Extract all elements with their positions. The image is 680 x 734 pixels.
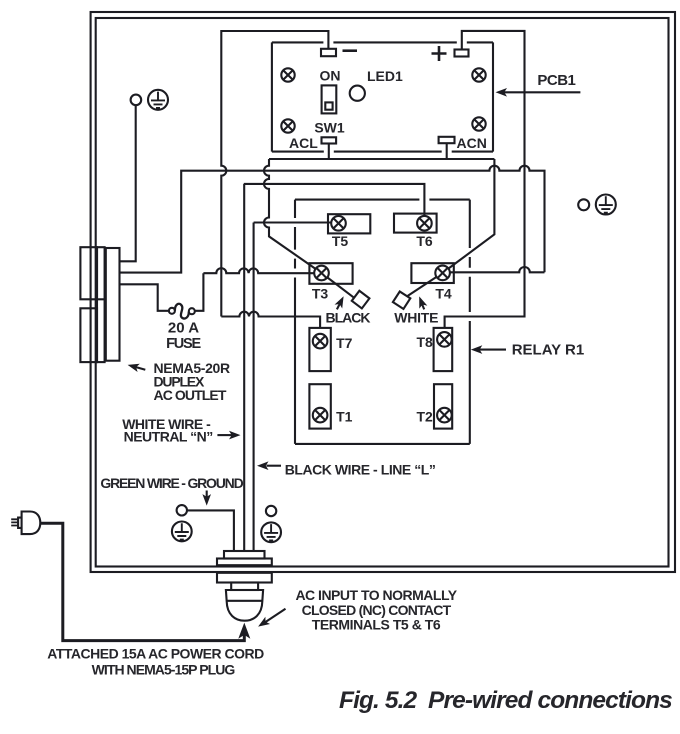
svg-text:AC OUTLET: AC OUTLET: [154, 387, 227, 403]
terminal T7: [309, 328, 330, 371]
svg-text:T6: T6: [416, 233, 433, 249]
svg-text:FUSE: FUSE: [166, 336, 201, 352]
ground stud circle right: [578, 199, 589, 210]
cable gland dome: [226, 590, 263, 621]
enclosure inner box: [96, 18, 669, 567]
svg-text:GREEN WIRE - GROUND: GREEN WIRE - GROUND: [100, 475, 243, 491]
wire: ACL tab drop: [328, 143, 330, 159]
svg-text:20 A: 20 A: [168, 320, 199, 337]
plug prongs: [11, 519, 18, 525]
svg-text:T7: T7: [336, 335, 353, 351]
arrow to relay R1: [479, 349, 506, 351]
screw T7: [313, 334, 328, 349]
svg-text:TERMINALS T5 & T6: TERMINALS T5 & T6: [312, 616, 441, 632]
wire: bus left branch to T3 screw: [264, 159, 322, 273]
svg-text:WITH NEMA5-15P PLUG: WITH NEMA5-15P PLUG: [92, 662, 236, 678]
svg-text:T2: T2: [416, 409, 433, 425]
arrow to black wire: [267, 465, 282, 467]
duplex outlet upper face: [80, 247, 97, 299]
ground symbol bottom-left: [172, 522, 192, 542]
svg-text:ACN: ACN: [457, 135, 487, 151]
arrow AC input to gland: [264, 609, 286, 623]
terminal tab ACN: [439, 137, 455, 143]
ground symbol right: [596, 195, 616, 215]
terminal tab ACL: [322, 137, 337, 143]
wire: bus right branch to T4 screw: [443, 159, 495, 273]
wire: outlet to T4 via top run: [120, 166, 545, 273]
arrow to white wire: [217, 434, 232, 436]
arrow to outlet: [133, 366, 145, 369]
svg-text:T5: T5: [332, 233, 349, 249]
wire: ACN tab drop: [446, 143, 448, 159]
svg-text:ON: ON: [320, 68, 341, 84]
svg-text:WHITE: WHITE: [394, 310, 438, 326]
wire: outlet ground stub to stud: [120, 105, 136, 261]
terminal T3: [309, 263, 352, 284]
ground stud circle top-left: [131, 95, 142, 106]
screw T8: [437, 332, 452, 347]
PCB1 board outline: [272, 42, 493, 151]
wire: white wire to T6: [244, 184, 425, 223]
wire: T4 leg from right run: [445, 267, 545, 272]
svg-text:BLACK WIRE - LINE “L”: BLACK WIRE - LINE “L”: [285, 462, 436, 478]
duplex outlet strap: [97, 247, 105, 362]
white flag connector: [393, 291, 410, 308]
LED1 lamp: [350, 86, 365, 101]
terminal T1: [309, 384, 330, 428]
screw T2: [437, 408, 452, 423]
wire: white wire vertical (neutral): [243, 184, 245, 551]
ground symbol top-left: [148, 90, 168, 110]
screw PCB bottom-left: [281, 119, 294, 132]
screw T4: [435, 266, 450, 281]
svg-text:PCB1: PCB1: [537, 72, 575, 89]
wire: black wire to T5: [254, 221, 338, 223]
ground symbol bottom-mid: [261, 522, 281, 542]
fuse F1 20A: [169, 308, 175, 314]
terminal tab minus: [321, 49, 336, 56]
terminal T6: [394, 214, 437, 233]
svg-text:SW1: SW1: [314, 120, 345, 136]
wire: outlet to fuse: [120, 284, 170, 311]
plug tab: [18, 518, 22, 528]
svg-text:T4: T4: [435, 286, 452, 302]
duplex outlet body: [106, 248, 120, 361]
svg-text:Fig. 5.2 Pre-wired connection: Fig. 5.2 Pre-wired connections: [339, 687, 672, 714]
terminal T5: [328, 214, 370, 233]
wire: plus terminal to relay T8: [445, 31, 525, 328]
svg-text:ACL: ACL: [289, 135, 318, 151]
screw T6: [417, 216, 432, 231]
wire: T3 tail to black flag: [322, 273, 354, 297]
cable gland neck: [231, 583, 258, 591]
ground stud circle bottom-left: [177, 505, 187, 515]
screw PCB top-left: [281, 68, 294, 81]
wire: fuse to T3: [194, 268, 320, 311]
arrow to black lead: [337, 302, 341, 309]
screw T3: [314, 266, 329, 281]
cable gland plate 1: [224, 551, 265, 559]
svg-text:BLACK: BLACK: [326, 310, 371, 326]
arrow to PCB1: [504, 91, 580, 93]
wire: ACL-ACN bus: [269, 158, 494, 160]
cable gland plate 2: [217, 559, 272, 566]
cable gland plate 3: [217, 573, 272, 583]
black flag connector: [352, 291, 370, 309]
wire: black wire vertical (line): [253, 223, 255, 552]
svg-text:T1: T1: [336, 409, 353, 425]
svg-text:T8: T8: [416, 334, 433, 350]
terminal T4: [411, 263, 453, 283]
screw PCB bottom-right: [472, 117, 485, 130]
arrow to white lead: [422, 303, 425, 309]
arrow cord to gland: [238, 623, 250, 639]
wire: T4 tail to white flag: [408, 273, 443, 296]
enclosure outer box: [91, 12, 675, 572]
svg-text:AC INPUT TO NORMALLY: AC INPUT TO NORMALLY: [295, 587, 457, 603]
ground stud circle bottom-mid: [266, 506, 276, 516]
svg-text:ATTACHED 15A AC POWER CORD: ATTACHED 15A AC POWER CORD: [47, 646, 264, 662]
svg-text:LED1: LED1: [367, 68, 403, 84]
minus sign: [343, 49, 358, 52]
wire: minus terminal to relay T7 (neutral path): [221, 31, 328, 328]
screw T1: [313, 408, 328, 423]
terminal T8: [434, 328, 453, 371]
screw T5: [331, 216, 346, 231]
power cord and plug body: [22, 512, 41, 535]
cord run: [40, 523, 244, 640]
wire: green ground wire: [187, 510, 234, 551]
switch SW1: [322, 85, 337, 113]
svg-text:T3: T3: [312, 286, 329, 302]
arrow to green wire: [206, 491, 208, 498]
terminal T2: [434, 384, 452, 428]
relay R1 outline: [295, 200, 470, 444]
screw PCB top-right: [472, 68, 485, 81]
plus sign: [432, 46, 447, 61]
duplex outlet lower face: [80, 308, 97, 362]
svg-text:RELAY R1: RELAY R1: [512, 342, 585, 359]
terminal tab plus: [455, 50, 469, 57]
svg-text:NEUTRAL “N”: NEUTRAL “N”: [124, 429, 213, 445]
